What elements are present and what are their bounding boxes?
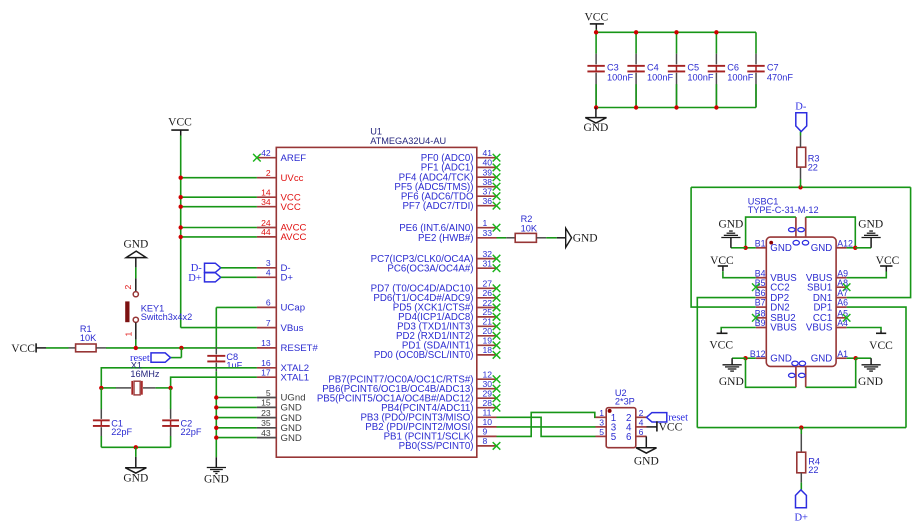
wire KEY1 pin 1 to reset net (135, 340, 137, 348)
svg-text:GND: GND (858, 219, 883, 231)
svg-text:31: 31 (483, 259, 493, 269)
svg-text:43: 43 (261, 428, 271, 438)
svg-text:28: 28 (483, 398, 493, 408)
wire U1 pin 33 to R2 (497, 237, 507, 239)
wire GND net to U1 pin (216, 406, 257, 408)
USBC1 pin A12 GND (836, 247, 847, 249)
U1 pin 15 GND (257, 406, 276, 408)
junction (134, 346, 138, 350)
junction (634, 30, 638, 34)
wire crystal GND rail (101, 446, 170, 448)
U1 pin 31 PC6(OC3A/OC4A#) (477, 267, 497, 269)
svg-text:XTAL1: XTAL1 (281, 372, 310, 383)
svg-text:100nF: 100nF (687, 73, 713, 83)
ground GND (USBC bottom-left) (732, 357, 745, 359)
svg-text:2*3P: 2*3P (615, 397, 635, 407)
svg-text:44: 44 (261, 227, 271, 237)
svg-text:5: 5 (599, 427, 604, 437)
USBC1 pin A4 VBUS (836, 327, 847, 329)
svg-text:SBU1: SBU1 (807, 282, 832, 293)
U1 pin 35 GND (257, 427, 276, 429)
svg-text:17: 17 (261, 368, 271, 378)
capacitor C6 100nF (715, 32, 717, 53)
U1 pin 39 PF4 (ADC4/TCK) (477, 176, 497, 178)
USBC1 pin A1 GND (836, 357, 847, 359)
U1 pin 22 PD5 (XCK1/CTS#) (477, 307, 497, 309)
U1 pin 4 D+ (257, 276, 276, 278)
svg-text:37: 37 (483, 187, 493, 197)
wire DN1 A7 long (847, 187, 911, 297)
svg-text:A1: A1 (837, 349, 848, 359)
U1 pin 2 UVcc (257, 177, 276, 179)
U1 pin 26 PD6(T1/OC4D#/ADC9) (477, 297, 497, 299)
power flag VCC (B9) (721, 328, 756, 331)
svg-text:VBus: VBus (281, 323, 304, 334)
svg-text:1: 1 (124, 332, 134, 337)
wire U1 pin 9 to U2 pin 1 (497, 412, 596, 436)
svg-text:Switch3x4x2: Switch3x4x2 (141, 312, 193, 322)
U1 pin 5 UGnd (257, 397, 276, 399)
svg-text:VCC: VCC (869, 340, 893, 352)
svg-text:16MHz: 16MHz (130, 369, 160, 379)
svg-text:18: 18 (483, 345, 493, 355)
U1 pin 30 PB6(PCINT6/OC1B/OC4B/ADC13) (477, 388, 497, 390)
svg-text:100nF: 100nF (727, 73, 753, 83)
svg-text:DN2: DN2 (770, 302, 789, 313)
U2 pin 2 (636, 416, 647, 418)
svg-text:6: 6 (626, 432, 632, 443)
ground GND (USBC top-left) (731, 247, 746, 249)
U1 pin 41 PF0 (ADC0) (477, 157, 497, 159)
svg-text:B6: B6 (755, 288, 766, 298)
svg-text:VCC: VCC (168, 117, 192, 129)
svg-text:TYPE-C-31-M-12: TYPE-C-31-M-12 (748, 205, 819, 215)
wire XTAL1 U1 pin 17 (171, 377, 257, 388)
svg-text:GND: GND (858, 376, 883, 388)
svg-text:2: 2 (123, 285, 133, 290)
svg-text:PE2 (HWB#): PE2 (HWB#) (418, 233, 473, 244)
wire GND net to U1 pin (216, 427, 257, 429)
U1 pin 3 D- (257, 267, 276, 269)
svg-text:B1: B1 (755, 238, 766, 248)
svg-text:A6: A6 (837, 298, 848, 308)
svg-text:PD0 (OC0B/SCL/INT0): PD0 (OC0B/SCL/INT0) (374, 350, 474, 361)
svg-text:GND: GND (634, 455, 659, 467)
svg-text:39: 39 (483, 168, 493, 178)
wire shield bottom-left (746, 358, 796, 387)
U2 pin 3 (596, 426, 607, 428)
resistor R1 10K (69, 347, 76, 349)
svg-text:1uF: 1uF (226, 361, 242, 371)
svg-text:38: 38 (483, 177, 493, 187)
junction (179, 205, 183, 209)
svg-text:22: 22 (808, 465, 818, 475)
svg-text:GND: GND (811, 353, 833, 364)
svg-text:15: 15 (261, 398, 271, 408)
wire DN2 B7 long (691, 187, 756, 307)
svg-text:C7: C7 (767, 63, 779, 73)
svg-text:UVcc: UVcc (281, 173, 304, 184)
svg-text:470nF: 470nF (767, 73, 793, 83)
ground GND (crystal) (135, 447, 137, 457)
svg-text:PF7 (ADC7/TDI): PF7 (ADC7/TDI) (402, 201, 473, 212)
svg-text:2: 2 (266, 168, 271, 178)
svg-text:4: 4 (266, 268, 271, 278)
USBC1 pin B5 CC2 (756, 286, 767, 288)
net flag reset (U2 pin 2) (647, 413, 667, 422)
crystal X1 16MHz (101, 387, 116, 389)
wire A12 to junction (847, 247, 856, 249)
wire B1 to junction (746, 247, 756, 249)
ground GND (USBC top-right) (855, 247, 871, 249)
USBC1 pin A8 SBU1 (836, 286, 847, 288)
wire XTAL2 U1 pin 16 (101, 368, 257, 388)
svg-text:22: 22 (808, 162, 818, 172)
USBC1 shield pin bottom-right (805, 366, 807, 387)
svg-text:19: 19 (483, 336, 493, 346)
U1 pin 21 PD3 (TXD1/INT3) (477, 325, 497, 327)
wire rail to U1 pin (181, 177, 257, 179)
svg-text:27: 27 (483, 279, 493, 289)
wire reset net R1 to U1 pin 13 (106, 347, 257, 349)
junction (674, 30, 678, 34)
wire shield top-left (746, 217, 796, 248)
svg-text:D+: D+ (281, 273, 294, 284)
USBC1 pin A1 marker (769, 241, 773, 245)
svg-text:A4: A4 (837, 318, 848, 328)
ground GND (U2 pin 6) (645, 436, 647, 447)
switch KEY1 Switch3x4x2 (135, 278, 137, 291)
U1 pin 11 PB3 (PDO/PCINT3/MISO) (477, 416, 497, 418)
net flag reset (left) (180, 348, 182, 358)
resistor R4 22 (799, 425, 803, 429)
USBC1 pin B8 SBU2 (756, 317, 767, 319)
U1 pin 1 PE6 (INT.6/AIN0) (477, 227, 497, 229)
U1 pin 33 PE2 (HWB#) (477, 237, 497, 239)
wire rail to U1 pin (181, 227, 257, 229)
U1 pin 13 RESET# (257, 347, 276, 349)
svg-text:C6: C6 (727, 63, 739, 73)
svg-text:VCC: VCC (584, 11, 608, 23)
svg-text:AVCC: AVCC (281, 232, 307, 243)
svg-text:33: 33 (483, 228, 493, 238)
power flag VCC (U2 pin 4) (647, 426, 657, 428)
svg-text:AREF: AREF (281, 153, 307, 164)
wire VCC rail vertical (180, 136, 182, 328)
svg-text:4: 4 (639, 417, 644, 427)
USBC1 pin B7 DN2 (756, 306, 767, 308)
USBC1 pin A9 VBUS (836, 277, 847, 279)
wire VBus to rail (181, 327, 257, 329)
svg-text:B7: B7 (755, 298, 766, 308)
USBC1 pin B9 VBUS (756, 327, 767, 329)
junction (594, 30, 598, 34)
svg-text:PC6(OC3A/OC4A#): PC6(OC3A/OC4A#) (387, 263, 473, 274)
U1 pin 42 AREF (257, 157, 276, 159)
resistor R2 10K (506, 237, 515, 239)
svg-text:13: 13 (261, 338, 271, 348)
svg-text:14: 14 (261, 188, 271, 198)
wire R2 to GND flag (546, 237, 557, 239)
svg-text:22pF: 22pF (181, 427, 202, 437)
USBC1 shield pin top-left (795, 217, 797, 237)
svg-text:22pF: 22pF (111, 427, 132, 437)
svg-text:A7: A7 (837, 288, 848, 298)
U1 pin 10 PB2 (PDI/PCINT2/MOSI) (477, 426, 497, 428)
capacitor C7 470nF (755, 32, 757, 53)
junction (214, 435, 218, 439)
wire UCap U1 pin 6 (216, 306, 257, 308)
svg-text:VCC: VCC (876, 255, 900, 267)
U1 pin 29 PB5(PCINT5/OC1A/OC4B#/ADC12) (477, 397, 497, 399)
svg-text:42: 42 (261, 148, 271, 158)
svg-text:10K: 10K (80, 333, 97, 343)
wire GND bottom rail (596, 107, 756, 109)
net flag D- (top) (796, 113, 807, 132)
svg-text:GND: GND (770, 243, 792, 254)
wire D+ horizontal (697, 427, 906, 429)
capacitor C5 100nF (676, 32, 678, 53)
svg-text:11: 11 (483, 408, 492, 418)
junction (179, 235, 183, 239)
capacitor C4 100nF (635, 32, 637, 53)
wire U1 pin 10 to U2 pin 3 (497, 426, 596, 428)
U1 pin 9 PB1 (PCINT1/SCLK) (477, 435, 497, 437)
USBC1 shield pin bottom-left (795, 366, 797, 387)
svg-text:VCC: VCC (659, 422, 683, 434)
U2 pin 1 (596, 416, 607, 418)
svg-text:B9: B9 (755, 318, 766, 328)
svg-text:GND: GND (281, 433, 302, 444)
junction (168, 386, 172, 390)
svg-text:36: 36 (483, 196, 493, 206)
svg-text:10: 10 (483, 417, 493, 427)
U1 pin 38 PF5 (ADC5/TMS)) (477, 186, 497, 188)
wire rail to U1 pin (181, 196, 257, 198)
junction (853, 246, 857, 250)
junction (134, 445, 138, 449)
capacitor C3 100nF (595, 32, 597, 53)
ground GND (cap bank) (595, 108, 597, 118)
wire GND to KEY1 pin 2 (135, 267, 137, 278)
svg-text:1: 1 (483, 218, 488, 228)
svg-text:CC2: CC2 (770, 282, 789, 293)
junction (99, 386, 103, 390)
capacitor C1 22pF (100, 388, 102, 409)
U1 pin 19 PD1 (SDA/INT1) (477, 344, 497, 346)
wire U1 pin 11 to U2 pin 5 (497, 417, 596, 436)
junction (743, 246, 747, 250)
svg-text:GND: GND (123, 238, 148, 250)
U1 pin 18 PD0 (OC0B/SCL/INT0) (477, 354, 497, 356)
wire GND net to U1 pin (216, 397, 257, 399)
svg-text:GND: GND (811, 243, 833, 254)
ground GND (USBC bottom-right) (856, 357, 871, 359)
U1 pin 6 UCap (257, 306, 276, 308)
junction (179, 225, 183, 229)
svg-text:GND: GND (123, 473, 148, 485)
USBC1 pin B6 DP2 (756, 297, 767, 299)
svg-text:3: 3 (266, 258, 271, 268)
wire D- to pin 3 (221, 267, 257, 269)
wire D+ to pin 4 (221, 276, 257, 278)
svg-text:UCap: UCap (281, 303, 306, 314)
svg-text:VCC: VCC (709, 340, 733, 352)
junction (714, 30, 718, 34)
svg-text:26: 26 (483, 288, 493, 298)
wire GND net to U1 pin (216, 437, 257, 439)
svg-text:VCC: VCC (281, 202, 301, 213)
svg-text:40: 40 (483, 158, 493, 168)
wire D- horizontal (691, 186, 911, 188)
svg-text:10K: 10K (521, 224, 538, 234)
U1 pin 32 PC7(ICP3/CLK0/OC4A) (477, 258, 497, 260)
wire VCC to R1 (46, 347, 69, 349)
U2 pin 5 (596, 435, 607, 437)
USBC1 pin B4 VBUS (756, 277, 767, 279)
svg-text:VCC: VCC (11, 343, 35, 355)
U1 pin 16 XTAL2 (257, 367, 276, 369)
wire C8 to GND rail (215, 371, 217, 457)
svg-text:B12: B12 (750, 349, 766, 359)
svg-text:9: 9 (483, 427, 488, 437)
wire shield bottom-right (806, 358, 856, 387)
resistor R3 22 (798, 185, 802, 189)
svg-text:B4: B4 (755, 268, 766, 278)
wire rail to U1 pin (181, 236, 257, 238)
svg-text:34: 34 (261, 197, 271, 207)
svg-text:100nF: 100nF (647, 73, 673, 83)
U1 pin 27 PD7 (T0/OC4D/ADC10) (477, 287, 497, 289)
svg-text:RESET#: RESET# (281, 343, 319, 354)
svg-text:ATMEGA32U4-AU: ATMEGA32U4-AU (370, 136, 446, 146)
capacitor C8 1uF (215, 307, 217, 347)
svg-text:VBUS: VBUS (806, 323, 833, 334)
svg-text:D+: D+ (794, 513, 808, 524)
USBC1 pin B12 GND (756, 357, 767, 359)
U1 pin 44 AVCC (257, 236, 276, 238)
svg-text:6: 6 (266, 298, 271, 308)
wire shield top-right (806, 217, 856, 248)
svg-text:VBUS: VBUS (770, 323, 797, 334)
svg-text:21: 21 (483, 317, 493, 327)
U1 pin 8 PB0(SS/PCINT0) (477, 445, 497, 447)
svg-text:12: 12 (483, 370, 493, 380)
svg-text:DP1: DP1 (813, 302, 832, 313)
svg-text:GND: GND (770, 353, 792, 364)
svg-text:VCC: VCC (710, 255, 734, 267)
svg-text:6: 6 (639, 427, 644, 437)
svg-text:GND: GND (719, 376, 744, 388)
wire DP1 A6 long (847, 307, 906, 428)
ground GND flag (R2) (557, 237, 566, 239)
svg-text:3: 3 (599, 417, 604, 427)
junction (854, 356, 858, 360)
svg-text:1: 1 (599, 408, 604, 418)
U1 pin 34 VCC (257, 206, 276, 208)
svg-text:5: 5 (266, 388, 271, 398)
wire GND net to U1 pin (216, 417, 257, 419)
USBC1 pin A6 DP1 (836, 306, 847, 308)
svg-text:32: 32 (483, 249, 493, 259)
wire A1 junction (847, 357, 856, 359)
svg-text:30: 30 (483, 379, 493, 389)
wire rail to U1 pin (181, 206, 257, 208)
svg-text:29: 29 (483, 389, 493, 399)
U1 pin 20 PD2 (RXD1/INT2) (477, 335, 497, 337)
svg-text:GND: GND (573, 233, 598, 245)
power flag VCC (A4) (847, 328, 881, 331)
svg-text:20: 20 (483, 326, 493, 336)
svg-text:C5: C5 (687, 63, 699, 73)
U1 pin 24 AVCC (257, 227, 276, 229)
U1 pin 40 PF1 (ADC1) (477, 166, 497, 168)
svg-text:GND: GND (204, 473, 229, 485)
svg-text:5: 5 (611, 432, 617, 443)
svg-text:GND: GND (718, 219, 743, 231)
U1 pin 12 PB7(PCINT7/OC0A/OC1C/RTS#) (477, 378, 497, 380)
U1 pin 25 PD4(ICP1/ADC8) (477, 316, 497, 318)
U1 pin 43 GND (257, 437, 276, 439)
USBC1 pin A5 CC1 (836, 317, 847, 319)
junction (179, 346, 183, 350)
U1 pin 14 VCC (257, 196, 276, 198)
svg-text:35: 35 (261, 418, 271, 428)
U1 pin 7 VBus (257, 327, 276, 329)
svg-text:23: 23 (261, 408, 271, 418)
svg-text:41: 41 (483, 148, 493, 158)
U1 pin 28 PB4(PCINT4/ADC11) (477, 407, 497, 409)
net flag D+ (bottom) (796, 490, 807, 508)
svg-text:C4: C4 (647, 63, 659, 73)
svg-text:8: 8 (483, 436, 488, 446)
wire DP2 B6 long (697, 298, 756, 428)
U2 pin 4 (636, 426, 647, 428)
U1 pin 36 PF7 (ADC7/TDI) (477, 205, 497, 207)
capacitor C2 22pF (170, 388, 172, 409)
U1 pin 37 PF6 (ADC6/TDO (477, 195, 497, 197)
wire B12 junction (746, 357, 756, 359)
junction (214, 415, 218, 419)
ground GND (C8 earth) (215, 457, 217, 467)
U2 pin 6 (636, 435, 647, 437)
svg-text:D+: D+ (188, 273, 202, 284)
op-amp U1 body ATMEGA32U4-AU (276, 147, 477, 457)
junction (214, 426, 218, 430)
connector USBC1 TYPE-C-31-M-12 body (766, 237, 836, 366)
svg-text:2: 2 (639, 408, 644, 418)
junction (743, 356, 747, 360)
wire VCC top rail (596, 31, 756, 33)
svg-text:PB0(SS/PCINT0): PB0(SS/PCINT0) (399, 441, 474, 452)
U1 pin 17 XTAL1 (257, 376, 276, 378)
svg-text:A9: A9 (837, 268, 848, 278)
U1 pin 23 GND (257, 417, 276, 419)
junction (214, 395, 218, 399)
junction (179, 195, 183, 199)
svg-text:D-: D- (795, 102, 807, 113)
svg-text:A12: A12 (837, 238, 853, 248)
svg-text:GND: GND (583, 122, 608, 134)
junction (214, 405, 218, 409)
connector U2 2*3P body (606, 408, 636, 448)
USBC1 pin B1 GND (756, 247, 767, 249)
svg-text:C3: C3 (607, 63, 619, 73)
USBC1 pin A7 DN1 (836, 297, 847, 299)
junction (179, 176, 183, 180)
svg-text:7: 7 (266, 318, 271, 328)
svg-text:100nF: 100nF (607, 73, 633, 83)
